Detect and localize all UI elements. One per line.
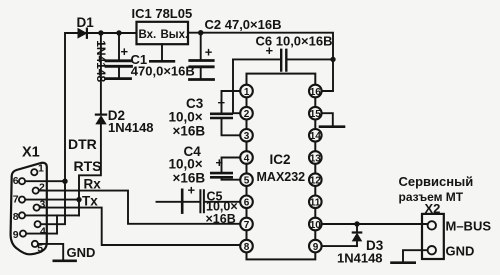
X1 pin 1 — [31, 169, 37, 175]
IC2 pin 16 — [309, 85, 322, 98]
svg-text:10: 10 — [310, 220, 322, 231]
IC2 pin 2 — [240, 107, 253, 120]
IC2 pin 5 — [240, 173, 253, 186]
svg-text:470,0×16В: 470,0×16В — [131, 64, 195, 79]
IC2 pin 13 — [309, 151, 322, 164]
IC2 pin 7 — [240, 218, 253, 231]
svg-text:MAX232: MAX232 — [257, 170, 306, 184]
svg-text:8: 8 — [13, 211, 19, 223]
X1 pin 5 — [32, 241, 38, 247]
svg-text:5: 5 — [244, 176, 250, 187]
svg-text:8: 8 — [244, 242, 250, 253]
capacitor C1 — [106, 33, 132, 79]
svg-text:6: 6 — [13, 175, 19, 187]
node: dot DTR riser x pin6 stub — [62, 179, 67, 184]
svg-text:разъем МТ: разъем МТ — [399, 190, 464, 204]
node: dot C6 tap on +5V riser — [330, 57, 335, 62]
wire: Tx line from X1 pin3 to IC2 pin8 — [40, 208, 240, 245]
svg-text:7: 7 — [13, 194, 19, 206]
ground: X1 gnd bar — [54, 259, 76, 262]
svg-text:Tx: Tx — [82, 194, 98, 209]
svg-text:4: 4 — [244, 153, 250, 164]
X1 pin 9 — [20, 231, 26, 237]
wire: X1 pin5 to ground — [38, 244, 63, 261]
X1 pin 4 — [35, 221, 41, 227]
wire: X1 pin8 stub — [25, 214, 79, 216]
svg-text:+: + — [121, 44, 129, 59]
svg-text:C2 47,0×16В: C2 47,0×16В — [205, 17, 282, 32]
X1 pin 3 — [34, 205, 40, 211]
IC2 pin 15 — [309, 107, 322, 120]
IC2 pin 11 — [309, 196, 322, 209]
wire: X1 pin6 stub — [25, 180, 65, 182]
svg-text:12: 12 — [310, 176, 322, 187]
wire: Rx line from X1 pin2 to IC2 pin7 — [39, 191, 240, 224]
svg-text:2: 2 — [39, 182, 45, 194]
svg-text:3: 3 — [244, 131, 250, 142]
IC2 pin 8 — [240, 240, 253, 253]
X2 pin GND — [428, 246, 436, 254]
svg-text:3: 3 — [40, 199, 46, 211]
IC2 pin 10 — [309, 218, 322, 231]
wire: X1 pin8-pin9 tie — [56, 215, 58, 233]
voltage regulator IC1 78L05 box — [137, 22, 189, 44]
svg-text:4: 4 — [40, 225, 46, 237]
svg-text:DTR: DTR — [68, 136, 97, 152]
ground: X2 gnd bar — [392, 261, 415, 264]
IC2 pin 3 — [240, 129, 253, 142]
wire: D2 riser (rail down to D2, D2 down to RTS jog) — [79, 33, 101, 215]
node: junction dot C1 riser on rail — [116, 30, 121, 35]
IC2 pin 6 — [240, 196, 253, 209]
svg-text:X1: X1 — [22, 145, 40, 161]
X2 pin M-BUS — [428, 221, 436, 229]
connector X1 DB9 shell — [11, 163, 47, 255]
node: junction dot D2 riser on rail — [98, 30, 103, 35]
svg-text:Rx: Rx — [84, 177, 102, 192]
svg-text:Вх.: Вх. — [139, 29, 157, 41]
op-amp/IC U2 body: MAX232 box — [247, 74, 316, 260]
svg-text:IC1 78L05: IC1 78L05 — [132, 6, 193, 21]
svg-text:9: 9 — [13, 229, 19, 241]
X1 pin 2 — [33, 188, 39, 194]
svg-text:+: + — [216, 155, 224, 170]
IC2 pin 9 — [309, 240, 322, 253]
svg-text:11: 11 — [310, 198, 321, 209]
capacitor C4 with risers to pins 4 and 5 — [211, 158, 240, 180]
wire: MAX232 pin9 to D3 — [322, 245, 357, 247]
ground: MAX232 pin15 gnd — [322, 113, 333, 125]
wire: +5V rail from IC1 output to right riser, down to pin16 — [188, 33, 333, 91]
svg-text:1: 1 — [38, 163, 44, 175]
capacitor C2 — [190, 33, 214, 80]
capacitor C3 with risers to pins 1 and 3 — [211, 91, 240, 135]
IC2 pin 1 — [240, 85, 253, 98]
X1 pin 6 — [19, 178, 25, 184]
capacitor C5 on pin6 wire — [157, 190, 241, 213]
X1 pin 8 — [19, 212, 25, 218]
svg-text:10,0×: 10,0× — [169, 110, 203, 125]
diode D1 — [78, 29, 87, 38]
svg-text:RTS: RTS — [74, 158, 102, 174]
svg-text:Вых.: Вых. — [161, 29, 189, 41]
svg-text:IC2: IC2 — [270, 152, 291, 167]
wire: X1 pin7 stub — [25, 199, 79, 201]
X1 pin 7 — [19, 197, 25, 203]
node: dot C2 tap — [198, 30, 203, 35]
diode D3 — [353, 224, 362, 246]
svg-text:6: 6 — [244, 198, 250, 209]
svg-text:1: 1 — [244, 87, 250, 98]
svg-text:×16В: ×16В — [173, 123, 206, 138]
svg-text:5: 5 — [37, 243, 43, 255]
diode D2 — [96, 115, 106, 124]
wire: DTR rail from X1 pin4 riser to IC1 input — [41, 33, 137, 224]
svg-text:+: + — [188, 183, 196, 198]
ground: IC1 gnd stub and bar — [150, 44, 174, 61]
connector X2 box — [422, 214, 444, 259]
node: dot D3 tap — [354, 221, 359, 226]
IC2 pin 14 — [309, 129, 322, 142]
wire: X1 pin9 stub — [26, 233, 57, 235]
IC2 pin 4 — [240, 151, 253, 164]
svg-text:7: 7 — [244, 220, 250, 231]
svg-text:16: 16 — [310, 87, 322, 98]
svg-text:GND: GND — [67, 245, 96, 260]
svg-text:+: + — [218, 95, 226, 110]
svg-text:13: 13 — [310, 153, 322, 164]
svg-text:+: + — [205, 45, 213, 60]
svg-text:1N4148: 1N4148 — [108, 120, 154, 135]
IC2 pin 12 — [309, 173, 322, 186]
svg-text:2: 2 — [244, 109, 250, 120]
svg-text:GND: GND — [446, 244, 475, 259]
svg-text:C6 10,0×16В: C6 10,0×16В — [256, 34, 333, 49]
svg-text:1N4148: 1N4148 — [337, 251, 383, 266]
wire: X2 GND to ground — [403, 250, 428, 261]
svg-text:Сервисный: Сервисный — [399, 174, 474, 189]
svg-text:9: 9 — [313, 242, 319, 253]
svg-text:D1: D1 — [77, 15, 95, 30]
node: dot RTS riser x pin7 stub — [76, 197, 81, 202]
svg-text:15: 15 — [310, 109, 322, 120]
svg-text:M–BUS: M–BUS — [446, 219, 492, 234]
svg-text:14: 14 — [310, 131, 322, 142]
capacitor C6 with wire from pin2 riser to +5V riser — [233, 50, 333, 113]
wire: MAX232 pin10 to X2 M-BUS — [322, 223, 428, 225]
